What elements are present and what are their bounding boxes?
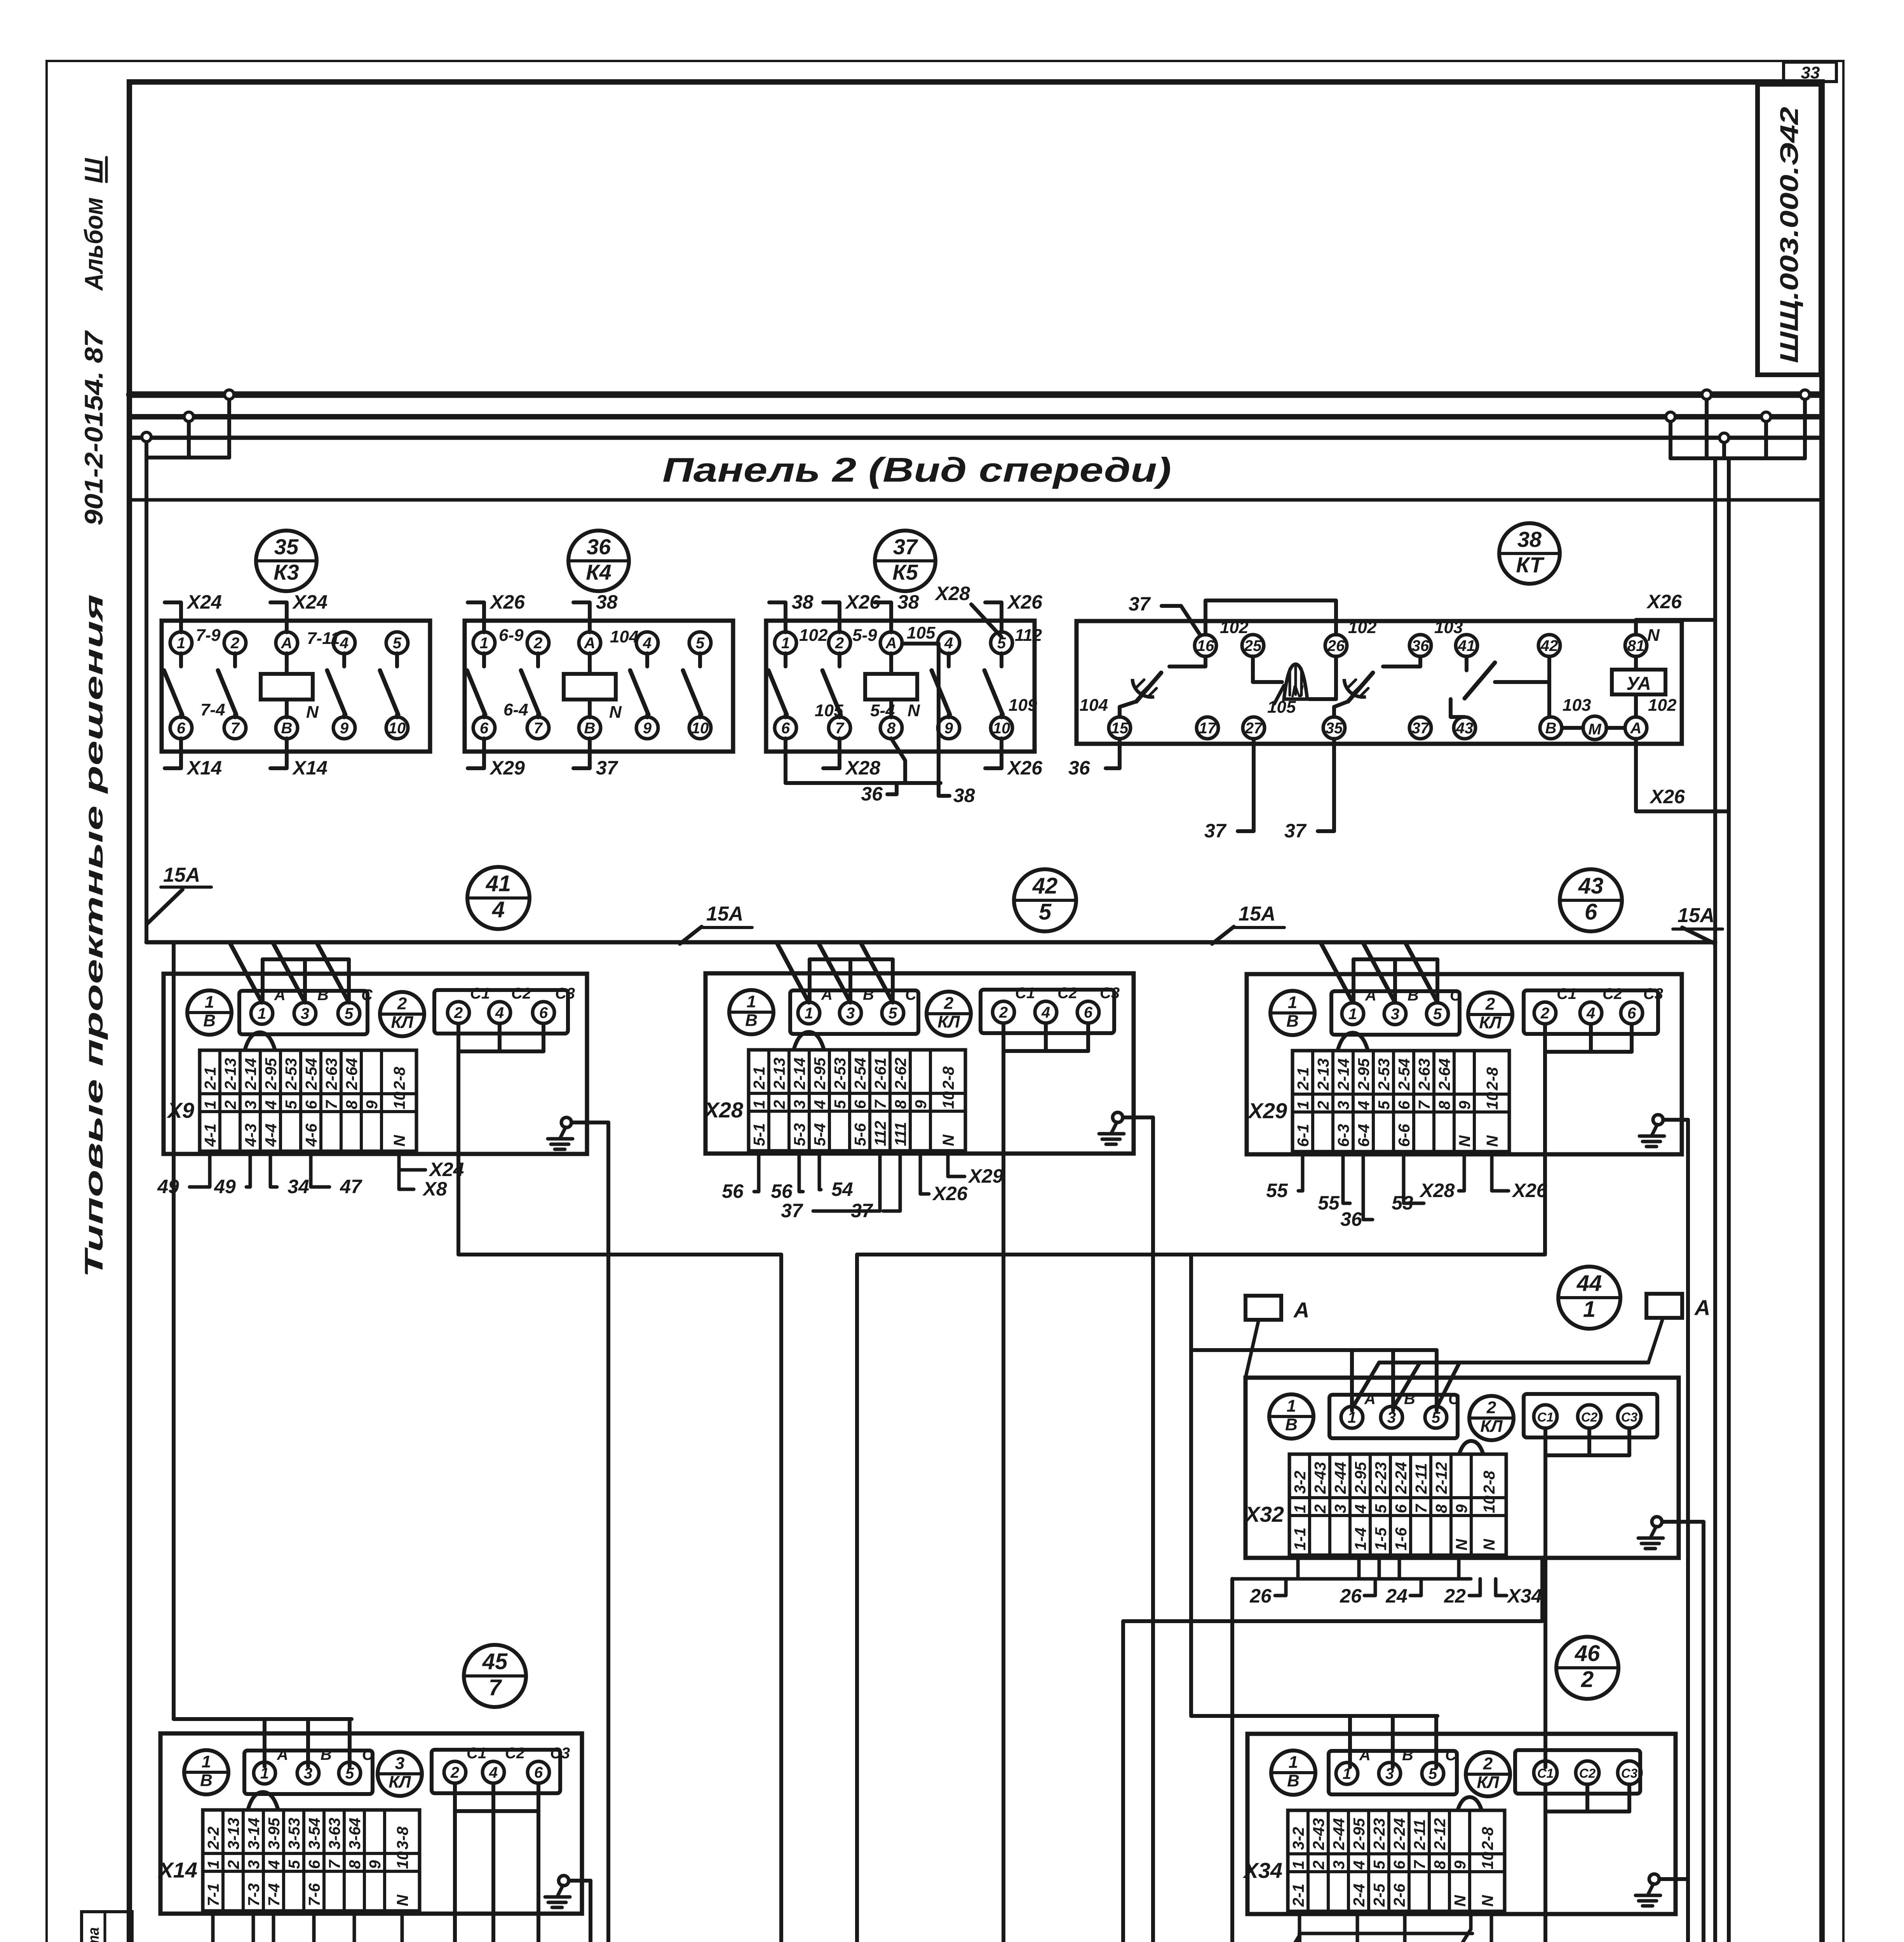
svg-text:3-53: 3-53: [285, 1818, 303, 1850]
svg-text:Х26: Х26: [1007, 757, 1043, 779]
svg-text:2-4: 2-4: [1350, 1884, 1368, 1907]
svg-text:Подпись и дата: Подпись и дата: [85, 1927, 102, 1942]
group 44 enclosure box: [1246, 1378, 1679, 1558]
relay К3 contact 5-10: [395, 653, 399, 666]
group 46 fuse designation circle 46/2: [1556, 1637, 1618, 1699]
svg-text:Х24: Х24: [415, 1939, 451, 1942]
svg-text:ШЩ.003.000.Э42: ШЩ.003.000.Э42: [1775, 107, 1803, 363]
svg-text:9: 9: [340, 720, 349, 737]
bus line L1: [129, 392, 1821, 398]
svg-text:6: 6: [177, 720, 186, 737]
relay К5 terminal 5 (top): [991, 632, 1012, 654]
svg-text:В: В: [1408, 987, 1419, 1004]
lead 55 from terminal strip: [1343, 1153, 1350, 1203]
relay К3 terminal 9 (bottom): [333, 717, 355, 739]
relay К5 terminal 2 (top): [829, 632, 850, 654]
lead 49 from terminal strip: [190, 1153, 210, 1187]
relay К4 terminal 4 (top): [636, 632, 658, 654]
svg-text:Х28: Х28: [845, 757, 880, 779]
KT terminal 81 (top): [1625, 635, 1647, 656]
group 43 trio 1-3-5 box: [1331, 991, 1460, 1035]
group 41 terminal 5 phase С: [338, 1002, 360, 1024]
relay К4 body box: [465, 621, 733, 752]
group 46 trio C1-C2-C3 box: [1515, 1750, 1640, 1794]
svg-text:2-6: 2-6: [1390, 1883, 1408, 1907]
group 45 1/B circle: [184, 1750, 228, 1794]
svg-text:4: 4: [1350, 1860, 1368, 1870]
svg-text:1: 1: [1287, 1396, 1296, 1415]
left feeder wire down to 15A line: [145, 458, 148, 942]
relay К5 contact 1-6: [784, 653, 787, 666]
junction dot L3 left tap: [145, 438, 148, 458]
svg-text:2-64: 2-64: [1435, 1058, 1453, 1091]
svg-text:С2: С2: [1603, 985, 1622, 1002]
svg-text:9: 9: [643, 720, 652, 737]
svg-text:37: 37: [1204, 820, 1227, 842]
group 44 trio 1-3-5 box: [1329, 1395, 1458, 1438]
svg-text:56: 56: [722, 1180, 744, 1202]
svg-text:С3: С3: [1643, 985, 1663, 1002]
group 41 terminal 1 phase А: [251, 1002, 273, 1024]
svg-text:2-43: 2-43: [1311, 1462, 1329, 1494]
group 43 1/B circle: [1270, 991, 1315, 1035]
relay К3 terminal 6 (bottom): [170, 717, 192, 739]
sheet number box 33: [1784, 62, 1836, 82]
relay К3 coil: [285, 653, 289, 674]
fuse flag 15A before group 43: [1212, 927, 1234, 944]
svg-text:6: 6: [1585, 900, 1597, 925]
time relay KT designation circle: [1499, 523, 1560, 584]
group 45 C2-C3 connector wire: [491, 1784, 495, 1811]
svg-text:3-2: 3-2: [1291, 1471, 1309, 1494]
svg-text:2-11: 2-11: [1411, 1819, 1428, 1850]
group 43 ground symbol: [1653, 1115, 1663, 1125]
svg-text:3-14: 3-14: [245, 1818, 263, 1850]
svg-text:С: С: [362, 1746, 374, 1763]
relay К3 top lead Х24: [165, 602, 181, 632]
svg-text:К3: К3: [273, 560, 299, 584]
svg-text:2-23: 2-23: [1370, 1818, 1388, 1850]
svg-text:7-6: 7-6: [305, 1883, 323, 1906]
relay K5 lead 36 hook: [887, 783, 897, 794]
relay К3 bottom lead Х14: [165, 738, 181, 768]
ground wire of group 41 down: [606, 1122, 610, 1942]
KT lead X26 bottom right to feeder 2: [1636, 739, 1729, 811]
group 43 terminal 5 phase С: [1427, 1003, 1448, 1025]
document number box (rotated) top right: [1758, 84, 1821, 375]
group 45 trio C1-C2-C3 box: [432, 1750, 560, 1793]
svg-text:6-4: 6-4: [1355, 1124, 1373, 1147]
svg-text:2: 2: [450, 1764, 459, 1781]
svg-text:5: 5: [696, 635, 705, 652]
svg-text:А: А: [584, 635, 596, 652]
svg-text:2-8: 2-8: [939, 1067, 957, 1090]
KT terminal 41 (top): [1456, 635, 1477, 656]
svg-text:2-53: 2-53: [282, 1058, 300, 1090]
svg-text:1: 1: [1294, 1101, 1312, 1110]
group 43 terminal C3: [1621, 1002, 1643, 1024]
group 46 enclosure box: [1247, 1734, 1676, 1914]
svg-text:С2: С2: [1579, 1766, 1596, 1780]
svg-text:2-13: 2-13: [1314, 1058, 1332, 1091]
svg-text:М: М: [1588, 721, 1602, 738]
svg-text:7: 7: [231, 720, 240, 737]
ground wire of group 45 down: [589, 1881, 592, 1942]
svg-text:2: 2: [454, 1004, 463, 1021]
KT terminal 42 (top): [1538, 635, 1560, 656]
svg-text:51: 51: [329, 1939, 350, 1942]
svg-text:41: 41: [486, 871, 511, 896]
svg-text:37: 37: [893, 534, 918, 559]
svg-text:55: 55: [1318, 1192, 1340, 1214]
svg-text:5: 5: [1039, 900, 1052, 925]
group 45 2/KL circle: [378, 1752, 422, 1796]
svg-text:Х14: Х14: [157, 1858, 197, 1882]
group 41 trio 1-3-5 box: [239, 991, 368, 1034]
group 44 fuse designation circle 44/1: [1558, 1267, 1620, 1329]
svg-text:N: N: [609, 703, 622, 722]
relay К3 bottom lead Х14: [270, 738, 287, 768]
svg-text:N: N: [1479, 1895, 1496, 1907]
svg-text:С: С: [1450, 987, 1462, 1004]
lead Х8 from terminal strip: [399, 1153, 414, 1189]
wire 44-C1 to 46-C1: [1543, 1433, 1547, 1767]
svg-text:5: 5: [831, 1100, 849, 1109]
svg-text:5: 5: [1372, 1504, 1390, 1513]
relay К5 coil: [889, 653, 893, 674]
svg-text:В: В: [584, 720, 596, 737]
group 42 C2-C3 connector wire: [1044, 1024, 1048, 1051]
bus line L2: [129, 414, 1821, 419]
group 44 feeder rail and vertical drops: [1191, 1348, 1437, 1352]
svg-text:45: 45: [482, 1649, 508, 1674]
svg-text:2-95: 2-95: [262, 1058, 280, 1090]
lead 52 from terminal strip: [204, 1912, 213, 1942]
wires from group 45 C1 C2 C3 to bottom: [423, 1789, 455, 1942]
svg-text:1: 1: [805, 1005, 813, 1022]
svg-text:15: 15: [1111, 720, 1129, 737]
svg-text:1: 1: [202, 1752, 211, 1771]
svg-text:4: 4: [1586, 1005, 1595, 1022]
svg-text:С2: С2: [1057, 985, 1077, 1002]
KT terminal 25 (top): [1242, 635, 1264, 656]
svg-text:10: 10: [394, 1851, 411, 1869]
group 42 fuse designation circle 42/5: [1014, 869, 1076, 931]
lead Х29 from terminal strip: [948, 1152, 965, 1176]
svg-text:5: 5: [1433, 1006, 1442, 1023]
svg-text:56: 56: [771, 1180, 793, 1202]
lead 47 from terminal strip: [311, 1153, 329, 1187]
KT bottom lead 36 from 15: [1106, 739, 1120, 768]
svg-text:Х34: Х34: [1507, 1585, 1542, 1607]
svg-text:4: 4: [340, 635, 348, 652]
terminal strip Х29 jumper arc: [1338, 1033, 1368, 1051]
svg-text:3: 3: [1391, 1006, 1399, 1023]
svg-text:6-9: 6-9: [499, 626, 524, 645]
group 45 ground symbol: [559, 1876, 569, 1886]
svg-text:С3: С3: [1621, 1766, 1637, 1780]
svg-text:В: В: [863, 986, 874, 1003]
svg-text:6: 6: [302, 1100, 320, 1109]
svg-text:4-4: 4-4: [262, 1124, 280, 1147]
svg-text:7-9: 7-9: [196, 626, 221, 645]
svg-text:2: 2: [1311, 1504, 1329, 1514]
svg-text:Х14: Х14: [186, 757, 222, 779]
svg-text:2-12: 2-12: [1431, 1818, 1449, 1850]
svg-text:102: 102: [799, 626, 828, 645]
svg-text:2: 2: [221, 1100, 239, 1110]
svg-text:8: 8: [887, 720, 896, 737]
svg-text:49: 49: [214, 1176, 236, 1197]
svg-text:В: В: [200, 1771, 213, 1790]
relay К3 terminal 7 (bottom): [224, 717, 246, 739]
relay К5 bottom lead Х26: [985, 738, 1002, 768]
svg-text:2-64: 2-64: [343, 1058, 361, 1090]
svg-text:27: 27: [1245, 720, 1263, 737]
group 45 trio 1-3-5 box: [244, 1751, 373, 1794]
svg-text:3: 3: [242, 1100, 260, 1109]
relay К5 top lead Х26: [985, 602, 1002, 632]
svg-text:N: N: [390, 1135, 408, 1147]
svg-text:3-63: 3-63: [326, 1818, 343, 1850]
svg-text:22: 22: [1444, 1585, 1466, 1607]
svg-text:38: 38: [1517, 527, 1542, 552]
group 42 terminal C2: [1035, 1001, 1057, 1023]
svg-text:2: 2: [999, 1004, 1008, 1021]
ground wire of group 42 down: [1151, 1117, 1155, 1942]
group 42 terminal C3: [1077, 1001, 1099, 1023]
svg-text:Х28: Х28: [703, 1098, 743, 1122]
relay К5 terminal А (top): [880, 632, 902, 654]
group 45 terminal C1: [444, 1761, 466, 1783]
svg-text:4: 4: [643, 635, 652, 652]
terminal strip Х14 jumper arc: [248, 1792, 278, 1810]
svg-text:1: 1: [1348, 1006, 1357, 1023]
svg-text:35: 35: [359, 1939, 381, 1942]
group 42 terminal 3 phase В: [840, 1002, 861, 1024]
svg-text:С3: С3: [550, 1745, 570, 1762]
svg-text:Х28: Х28: [934, 583, 970, 604]
svg-text:Х26: Х26: [1649, 786, 1685, 807]
relay К3 terminal 2 (top): [224, 632, 246, 654]
group 43 terminal 3 phase В: [1384, 1003, 1406, 1025]
relay К5 terminal 8 (bottom): [880, 717, 902, 739]
svg-text:1: 1: [747, 992, 756, 1011]
KT delayed contact 16-15: [1169, 656, 1205, 666]
svg-text:Х8: Х8: [422, 1178, 447, 1200]
relay К5 top lead 38: [875, 602, 891, 632]
svg-text:2-63: 2-63: [322, 1058, 340, 1090]
svg-text:54: 54: [831, 1178, 853, 1200]
ground wire of group 44 down: [1702, 1522, 1705, 1942]
svg-text:81: 81: [1627, 637, 1645, 654]
wire X32-N to rail R2: [1540, 1557, 1544, 1621]
svg-text:105: 105: [907, 623, 935, 642]
relay К5 terminal 10 (bottom): [991, 717, 1012, 739]
group 45 terminal 5 phase С: [339, 1762, 361, 1784]
svg-text:3-2: 3-2: [1289, 1827, 1307, 1850]
relay К5 contact 4-9: [947, 653, 951, 666]
svg-text:37: 37: [1412, 720, 1430, 737]
group 44 ammeter tap rail and diagonals: [1379, 1361, 1648, 1364]
relay К4 terminal 2 (top): [527, 632, 549, 654]
svg-text:В: В: [1402, 1747, 1413, 1764]
group 43 local rail with vertical drops: [1354, 957, 1437, 961]
svg-text:109: 109: [1009, 696, 1037, 715]
svg-text:УА: УА: [1626, 673, 1651, 694]
svg-text:35: 35: [1326, 720, 1343, 737]
svg-text:8: 8: [346, 1860, 364, 1869]
svg-text:2-8: 2-8: [1479, 1827, 1496, 1850]
svg-text:2-1: 2-1: [201, 1067, 219, 1090]
svg-text:15А: 15А: [1678, 904, 1714, 927]
svg-text:9: 9: [363, 1100, 381, 1109]
relay К5 body box: [766, 621, 1035, 752]
svg-text:9: 9: [1456, 1101, 1474, 1110]
group 44 C2-C3 connector wire: [1587, 1428, 1591, 1455]
svg-text:N: N: [1291, 682, 1304, 701]
group 43 enclosure box: [1247, 974, 1682, 1154]
svg-text:2-8: 2-8: [1480, 1471, 1498, 1494]
relay К4 contact 5-10: [698, 653, 702, 666]
lead 37 from terminal strip: [883, 1152, 900, 1211]
wire rail R1 segment b (43-C1 to H6-1 drop): [857, 1051, 1545, 1942]
svg-text:36: 36: [861, 783, 883, 805]
group 43 terminal 1 phase А: [1342, 1003, 1364, 1025]
svg-text:53: 53: [1392, 1192, 1413, 1214]
svg-text:С: С: [905, 986, 917, 1003]
group 44 terminal C3: [1618, 1405, 1641, 1428]
KT terminal 17 (bottom): [1197, 717, 1218, 739]
svg-text:А: А: [1630, 720, 1642, 737]
svg-text:2: 2: [770, 1100, 788, 1109]
lead 54 from terminal strip: [819, 1152, 821, 1190]
group 44 terminal 5 phase С: [1425, 1406, 1447, 1428]
group 42 enclosure box: [706, 973, 1134, 1154]
svg-text:9: 9: [366, 1860, 384, 1869]
svg-text:Х34: Х34: [1242, 1858, 1282, 1883]
group 46 trio 1-3-5 box: [1329, 1751, 1457, 1794]
svg-text:А: А: [277, 1746, 288, 1763]
svg-text:3: 3: [395, 1754, 404, 1773]
svg-text:1: 1: [1289, 1752, 1298, 1771]
svg-text:103: 103: [1563, 696, 1591, 715]
svg-text:6-6: 6-6: [1395, 1124, 1413, 1147]
svg-text:1: 1: [1288, 993, 1297, 1012]
svg-text:2-54: 2-54: [851, 1058, 869, 1090]
svg-text:А: А: [1694, 1295, 1710, 1320]
svg-text:2-95: 2-95: [1352, 1462, 1369, 1494]
svg-text:901-2-0154. 87: 901-2-0154. 87: [79, 330, 108, 526]
svg-text:43: 43: [1456, 720, 1474, 737]
svg-text:1: 1: [1583, 1297, 1596, 1322]
svg-text:1: 1: [781, 635, 790, 652]
svg-text:104: 104: [610, 627, 638, 646]
svg-text:С: С: [361, 987, 373, 1004]
group 42 terminal C1: [993, 1001, 1014, 1023]
svg-text:Х24: Х24: [1509, 1940, 1544, 1942]
group 42 feeder diagonals: [777, 943, 809, 1002]
svg-text:С1: С1: [1557, 985, 1577, 1002]
svg-text:С3: С3: [555, 985, 575, 1002]
relay К4 bottom lead Х29: [468, 738, 484, 768]
svg-text:112: 112: [1015, 626, 1042, 645]
svg-text:5: 5: [282, 1100, 300, 1109]
svg-text:2-95: 2-95: [811, 1057, 829, 1090]
lead 35 from terminal strip: [273, 1912, 275, 1942]
svg-text:6: 6: [1395, 1100, 1413, 1110]
svg-text:2-44: 2-44: [1330, 1818, 1348, 1850]
terminal strip Х32 jumper arc: [1459, 1441, 1483, 1454]
svg-text:7: 7: [326, 1859, 343, 1869]
svg-text:2-24: 2-24: [1390, 1818, 1408, 1850]
terminal strip Х28 grid: [749, 1050, 965, 1151]
svg-text:7-11: 7-11: [307, 629, 340, 648]
group 46 C2-C3 connector wire: [1585, 1784, 1589, 1811]
relay К4 top lead Х26: [468, 602, 484, 632]
relay К4 designation circle: [568, 531, 629, 591]
wire drop to K2-2: [1298, 1933, 1301, 1942]
svg-text:9: 9: [912, 1100, 930, 1109]
svg-text:10: 10: [390, 1091, 408, 1109]
svg-text:2-11: 2-11: [1412, 1463, 1430, 1494]
svg-text:2-1: 2-1: [1294, 1067, 1312, 1091]
X34 hook collector line and K2-2 feed: [1298, 1913, 1301, 1933]
svg-text:3: 3: [846, 1005, 855, 1022]
svg-text:38: 38: [897, 591, 919, 613]
group 46 terminal C1: [1534, 1761, 1557, 1784]
KT wire B-M-A: [1563, 726, 1583, 730]
svg-text:9: 9: [944, 720, 953, 737]
svg-text:Х26: Х26: [489, 591, 525, 613]
group 46 terminal 1 phase А: [1336, 1763, 1358, 1784]
left tap connector wire: [146, 456, 229, 459]
svg-text:2: 2: [1485, 994, 1495, 1013]
svg-text:3: 3: [245, 1860, 263, 1869]
svg-text:2-63: 2-63: [1415, 1058, 1433, 1091]
ammeter box A (left of group 44): [1246, 1296, 1281, 1320]
relay К4 terminal 6 (bottom): [473, 717, 495, 739]
relay К4 terminal А (top): [579, 632, 601, 654]
svg-text:N: N: [1480, 1538, 1498, 1550]
lead 55 from terminal strip: [1298, 1153, 1303, 1191]
KT bottom lead 37 from 27: [1238, 739, 1254, 831]
svg-text:2: 2: [944, 994, 954, 1013]
svg-text:36: 36: [1340, 1208, 1362, 1230]
lead 37 from terminal strip: [813, 1152, 880, 1211]
svg-text:Ш: Ш: [79, 158, 108, 183]
relay К4 contact 1-6: [482, 653, 486, 666]
group 42 terminal 1 phase А: [798, 1002, 820, 1024]
ground wire of groups 43 and 46 down: [1686, 1120, 1690, 1942]
svg-text:26: 26: [1249, 1585, 1272, 1607]
svg-text:8: 8: [1431, 1860, 1449, 1869]
relay К5 terminal 4 (top): [938, 632, 960, 654]
svg-text:2-54: 2-54: [1395, 1058, 1413, 1091]
svg-text:2-14: 2-14: [242, 1058, 260, 1090]
lead Х24 from terminal strip: [399, 1153, 425, 1170]
svg-text:104: 104: [1080, 696, 1108, 715]
svg-text:37: 37: [1129, 593, 1151, 615]
KT delayed contact 36-35: [1383, 656, 1420, 666]
relay К3 terminal 10 (bottom): [386, 717, 408, 739]
svg-text:36: 36: [587, 534, 611, 559]
relay K5 wire from A to bottom loop with lead 38: [902, 644, 949, 796]
terminal strip Х29 grid: [1293, 1051, 1509, 1152]
svg-text:2-53: 2-53: [831, 1058, 849, 1090]
svg-text:111: 111: [892, 1122, 909, 1146]
group 45 terminal C2: [483, 1761, 504, 1783]
